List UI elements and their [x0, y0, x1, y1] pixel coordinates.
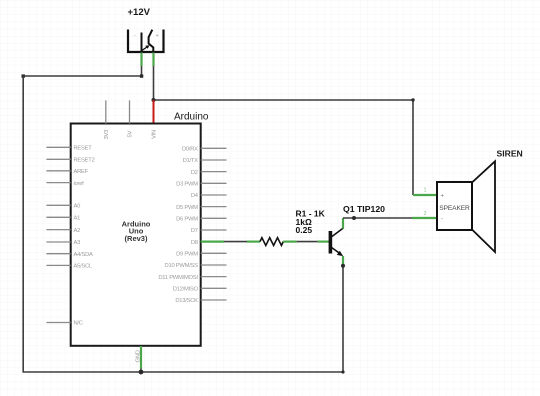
power jack J1: [128, 30, 164, 53]
wire: left ground rail down and along bottom: [23, 76, 343, 372]
Arduino right pins: [201, 148, 227, 300]
wire: D8 to resistor: [224, 241, 247, 243]
jack positive pin: [152, 53, 154, 67]
wire: emitter to ground rail: [342, 267, 344, 373]
svg-text:-: -: [441, 217, 443, 223]
svg-text:+: +: [156, 33, 159, 39]
svg-text:Q1 TIP120: Q1 TIP120: [343, 204, 385, 214]
svg-text:VIN: VIN: [152, 130, 158, 139]
svg-text:D4: D4: [191, 193, 199, 199]
R1 value label: [296, 209, 326, 236]
svg-text:A4/SDA: A4/SDA: [74, 252, 94, 258]
svg-text:D0/RX: D0/RX: [182, 147, 198, 153]
svg-text:5V: 5V: [128, 131, 134, 138]
svg-text:0.25: 0.25: [296, 225, 313, 235]
svg-text:D8: D8: [191, 240, 198, 246]
junction node emitter: [341, 264, 345, 268]
Arduino U1 box: [71, 112, 209, 346]
svg-text:D7: D7: [191, 228, 198, 234]
svg-text:D3 PWM: D3 PWM: [176, 182, 198, 188]
junction node at VIN branch: [152, 98, 156, 102]
svg-text:A2: A2: [74, 228, 81, 234]
speaker SP1: [437, 161, 495, 252]
wire: collector to speaker minus: [343, 217, 412, 219]
svg-text:(Rev3): (Rev3): [125, 234, 148, 243]
svg-text:D9 PWM: D9 PWM: [176, 252, 198, 258]
svg-text:+12V: +12V: [128, 7, 151, 18]
svg-text:D13/SCK: D13/SCK: [175, 298, 198, 304]
svg-text:D2: D2: [191, 170, 198, 176]
svg-text:D12/MISO: D12/MISO: [173, 287, 199, 293]
wire: jack positive lead down: [153, 66, 155, 100]
svg-text:SIREN: SIREN: [497, 148, 523, 158]
speaker pin 1 lead: [413, 194, 437, 196]
svg-text:2: 2: [424, 211, 427, 217]
svg-text:N/C: N/C: [74, 321, 83, 327]
wire: resistor to base: [297, 241, 318, 243]
Arduino bottom pin GND: [136, 346, 142, 372]
svg-text:RESET: RESET: [74, 146, 93, 152]
svg-text:AREF: AREF: [74, 169, 89, 175]
svg-text:RESET2: RESET2: [74, 158, 95, 164]
corner node at speaker riser: [411, 98, 414, 101]
speaker pin 2 lead: [412, 217, 437, 219]
Arduino top pins 3V3 5V VIN: [106, 100, 130, 123]
svg-text:Arduino: Arduino: [174, 112, 209, 123]
junction node GND to rail: [139, 370, 144, 375]
svg-text:3V3: 3V3: [104, 130, 110, 140]
svg-text:D6 PWM: D6 PWM: [176, 217, 198, 223]
resistor R1: [247, 238, 297, 246]
svg-text:A1: A1: [74, 216, 81, 222]
corner node rail end: [341, 370, 344, 373]
pin D8 connected stub: [201, 241, 224, 243]
junction node on collector wire: [352, 216, 356, 220]
svg-text:A0: A0: [74, 204, 81, 210]
svg-text:+: +: [441, 194, 445, 200]
svg-text:ioref: ioref: [74, 181, 85, 187]
svg-text:D1/TX: D1/TX: [183, 158, 199, 164]
Arduino left pins: [46, 147, 70, 322]
svg-text:-: -: [134, 33, 136, 39]
svg-text:D5 PWM: D5 PWM: [176, 205, 198, 211]
wire: red wire to VIN: [153, 100, 155, 124]
speaker pin numbers: [424, 188, 427, 218]
svg-text:D11 PWM/MOSI: D11 PWM/MOSI: [158, 275, 198, 281]
transistor Q1 TIP120: [318, 218, 344, 267]
jack negative pin: [140, 53, 142, 67]
svg-text:1: 1: [424, 188, 427, 194]
wire: jack negative lead to left rail: [22, 66, 144, 78]
svg-text:GND: GND: [136, 350, 142, 362]
wire: +12V rail to speaker plus: [154, 100, 414, 195]
svg-text:SPEAKER: SPEAKER: [439, 205, 470, 212]
svg-text:D10 PWM/SS: D10 PWM/SS: [165, 263, 199, 269]
svg-text:A5/SCL: A5/SCL: [74, 264, 94, 270]
svg-text:A3: A3: [74, 240, 81, 246]
